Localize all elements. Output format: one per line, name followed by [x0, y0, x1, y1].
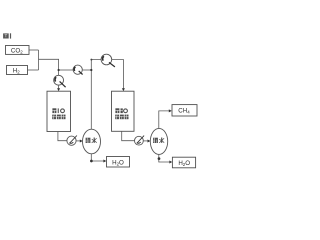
cooler C1 — [67, 136, 77, 146]
wire CO2 box to mix header — [29, 49, 39, 51]
wire E2 riser to CH4 box — [159, 111, 169, 128]
junction dot (feed drop / recycle) — [58, 69, 60, 71]
wire H2 box to mix header — [28, 69, 39, 71]
box H2 (feed) — [7, 66, 28, 75]
label 第1の (reactor 1, line 1) — [52, 108, 64, 113]
wire B1 to reactor 1 — [58, 85, 60, 89]
label 反応器 (reactor 1, line 2) — [52, 115, 65, 120]
dehydrator E2 (ellipse) — [150, 128, 167, 154]
wire reactor 1 outlet to cooler C1 — [58, 132, 67, 141]
arrow into reactor 2 — [122, 88, 125, 91]
box CO2 (feed) — [6, 46, 30, 55]
wire C1 to dehydrator E1 — [76, 140, 80, 142]
box H2O (from E2) — [172, 157, 195, 168]
junction dot E1 drain — [90, 160, 93, 163]
arrow into reactor 1 — [57, 88, 60, 91]
dehydrator E1 (ellipse) — [83, 129, 101, 154]
wire C2 to dehydrator E2 — [143, 140, 147, 142]
junction dot E2 drain — [158, 157, 161, 160]
wire P1 to riser — [82, 69, 91, 71]
wire E1 riser to compressor line — [91, 60, 101, 130]
wire mix header vertical — [38, 50, 40, 70]
box H2O (from E1) — [107, 157, 130, 168]
reactor 2 vessel — [112, 91, 135, 131]
wire E1 bottom to H2O box 1 — [91, 154, 103, 161]
junction dot (riser / recycle) — [90, 69, 92, 71]
label 第2の (reactor 2, line 1) — [115, 108, 127, 113]
wire mix header to reactor-1 feed drop — [39, 59, 59, 75]
junction blob at riser top corner — [90, 59, 92, 61]
figure label 図1 — [3, 33, 11, 38]
reactor 1 vessel — [47, 91, 71, 131]
arrow into CH4 box — [169, 109, 172, 112]
wire E2 bottom to H2O box 2 — [159, 154, 170, 162]
arrow into dehydrator E1 — [80, 140, 83, 143]
svg-text:H2O: H2O — [178, 160, 190, 167]
wire B2 to reactor 2 — [112, 60, 124, 89]
arrow into H2O box 1 — [103, 160, 106, 163]
cooler C2 — [135, 136, 145, 146]
compressor B2 — [101, 54, 115, 67]
label 反応器 (reactor 2, line 2) — [115, 115, 128, 120]
arrow into H2O box 2 — [169, 161, 172, 164]
pump P1 (recycle blower) — [73, 65, 83, 74]
blower B1 (reactor-1 feed) — [54, 75, 66, 87]
wire reactor 2 outlet to cooler C2 — [122, 131, 135, 140]
box CH4 (product) — [172, 105, 197, 116]
recycle line through pump P1 — [59, 69, 74, 71]
svg-text:H2O: H2O — [112, 159, 124, 166]
label 脱水 (E2) — [153, 138, 164, 144]
label 脱水 (E1) — [86, 138, 97, 144]
arrow into dehydrator E2 — [148, 140, 151, 143]
